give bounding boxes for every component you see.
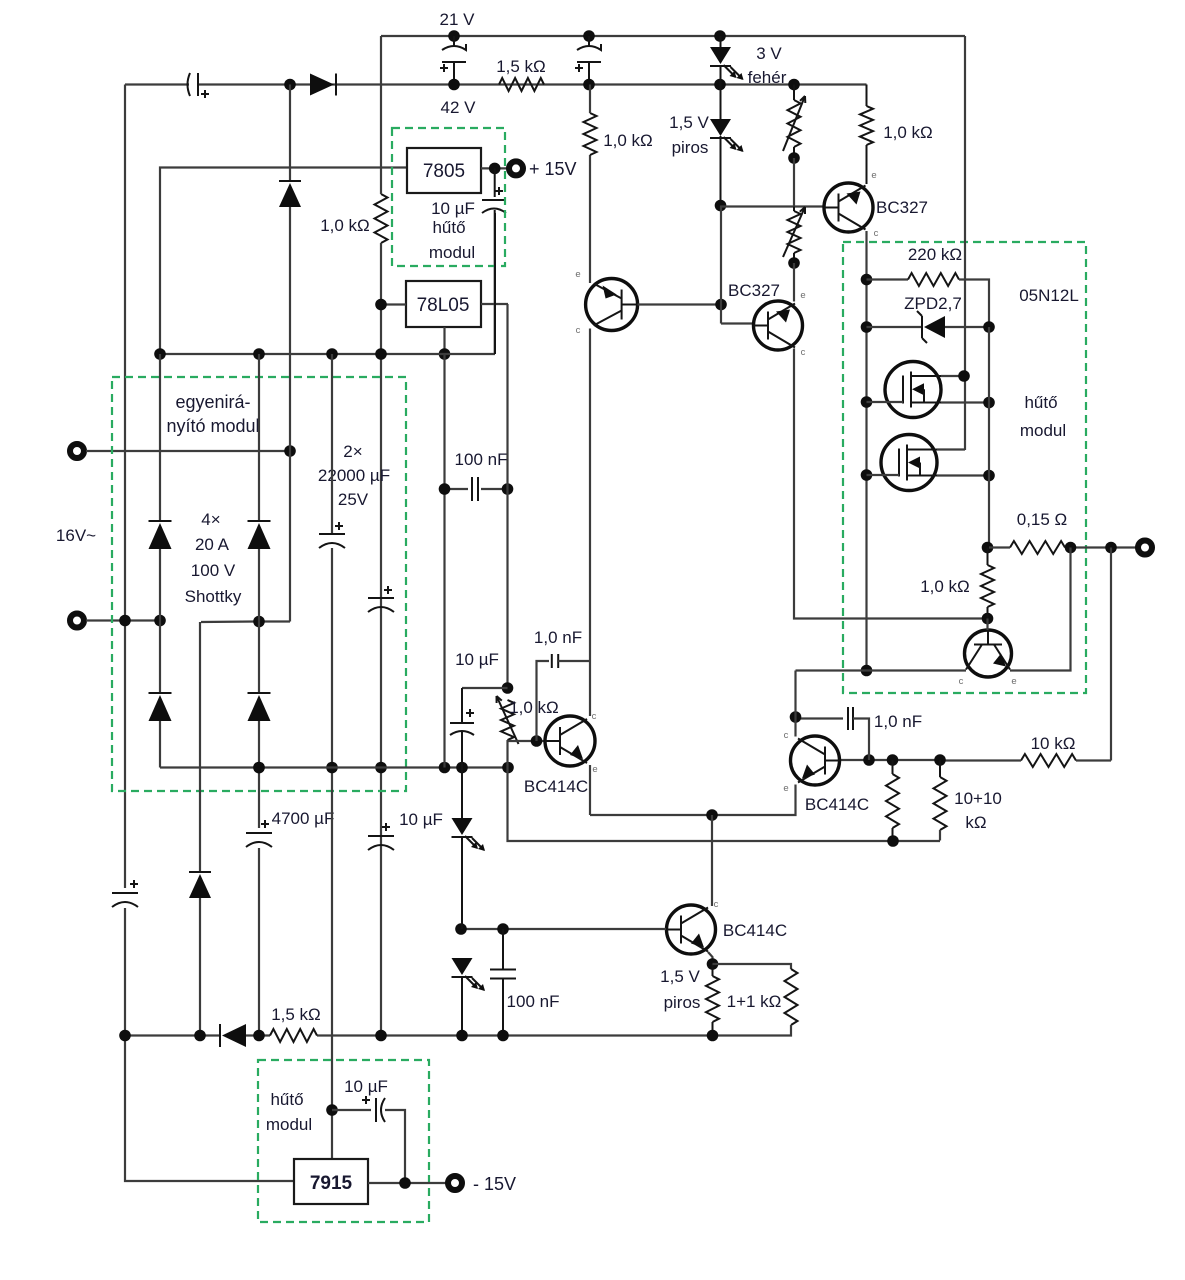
wire base rail BC327-1 <box>721 205 825 207</box>
node gnd rail a <box>439 348 451 360</box>
node Q2 base x722 <box>715 299 727 311</box>
node trimmer top <box>502 682 514 694</box>
svg-text:7805: 7805 <box>423 161 465 182</box>
wire top rail 21V net <box>381 35 965 37</box>
LED red x462 lower <box>452 958 473 975</box>
svg-text:10 µF: 10 µF <box>455 650 499 669</box>
wire Q6 collector up <box>711 815 713 906</box>
node 42V-b <box>583 30 595 42</box>
svg-text:piros: piros <box>664 993 701 1012</box>
transistor Q6 BC414C-3 <box>667 905 716 954</box>
diode D2 <box>248 520 271 522</box>
svg-text:e: e <box>592 764 597 775</box>
wire x200 bracket column <box>199 622 201 872</box>
svg-text:1,5 kΩ: 1,5 kΩ <box>271 1005 321 1024</box>
svg-text:20 A: 20 A <box>195 535 230 554</box>
capacitor 10uF (7915) <box>332 1109 371 1111</box>
node 100nF left <box>439 483 451 495</box>
node y354 x259 <box>253 348 265 360</box>
wire Q3 collector down <box>794 349 988 619</box>
svg-text:7915: 7915 <box>310 1173 353 1194</box>
wire 78L05 output <box>481 303 508 305</box>
wire Q4 collector <box>589 329 591 717</box>
node 100nF right <box>502 483 514 495</box>
wire Q5 collector <box>794 671 796 737</box>
diode D4 <box>248 692 271 694</box>
svg-text:78L05: 78L05 <box>417 295 470 316</box>
svg-text:BC414C: BC414C <box>524 777 588 796</box>
node output mid <box>1065 542 1077 554</box>
node output right <box>1105 542 1117 554</box>
node y1035 x503 <box>497 1030 509 1042</box>
node bracket x259 <box>253 616 265 628</box>
node y1035 x713 <box>707 1030 719 1042</box>
transistor Q3 BC327-2 <box>754 301 803 350</box>
wire Q7 base <box>986 619 988 631</box>
svg-text:4700 µF: 4700 µF <box>272 809 335 828</box>
node 1,0nF left <box>790 711 802 723</box>
wire Q7 collector to x866 <box>796 669 967 671</box>
resistor 1,0k (x866) <box>866 85 868 107</box>
wire bottom rail y1035 <box>125 1034 220 1036</box>
svg-text:c: c <box>592 711 597 722</box>
terminal -15V <box>448 1176 462 1190</box>
svg-text:modul: modul <box>266 1115 312 1134</box>
node base BC414C-1 <box>531 735 543 747</box>
svg-text:1,5 V: 1,5 V <box>669 113 709 132</box>
capacitor 10uF at 7805 <box>494 168 496 197</box>
node y1035 x462 <box>456 1030 468 1042</box>
node gate M2 <box>861 469 873 481</box>
wire gnd rail y354 <box>160 353 495 355</box>
node x381 rect bottom <box>375 762 387 774</box>
svg-text:ZPD2,7: ZPD2,7 <box>904 294 962 313</box>
svg-text:c: c <box>874 228 879 239</box>
node zener left <box>861 321 873 333</box>
wire AC lower bracket <box>201 620 290 623</box>
wire trimmer1 to base rail <box>793 158 795 207</box>
svg-text:e: e <box>1011 676 1016 687</box>
wire M1 drain <box>941 375 965 377</box>
svg-text:3 V: 3 V <box>756 44 782 63</box>
capacitor 10uF (x381 lower) <box>368 835 394 837</box>
terminal AC upper <box>70 444 84 458</box>
terminal AC lower <box>70 614 84 628</box>
node y1035 x125 <box>119 1030 131 1042</box>
diode D x290 <box>279 180 301 182</box>
wire x721 column <box>720 206 722 324</box>
node x259 rect bottom <box>253 762 265 774</box>
wire y768 nodes right <box>439 762 451 774</box>
transistor Q1 BC327-1 <box>824 183 873 232</box>
node AC lower x125 <box>119 615 131 627</box>
node y206 x720 <box>715 200 727 212</box>
node AC upper junction <box>284 445 296 457</box>
transistor Q5 BC414C-2 <box>791 736 840 785</box>
node y760 x940 <box>934 754 946 766</box>
wire base rail y760 <box>840 759 941 761</box>
wire AC upper <box>86 450 290 452</box>
svg-text:e: e <box>783 783 788 794</box>
resistor 1,5k bottom <box>270 1029 317 1042</box>
svg-text:hűtő: hűtő <box>270 1090 303 1109</box>
svg-text:egyenirá-: egyenirá- <box>175 392 250 412</box>
svg-text:modul: modul <box>1020 421 1066 440</box>
svg-text:e: e <box>575 269 580 280</box>
svg-text:1,5 V: 1,5 V <box>660 967 700 986</box>
node y767 x258 <box>253 762 265 774</box>
wire M2 source <box>937 474 989 476</box>
svg-text:1,0 kΩ: 1,0 kΩ <box>509 698 559 717</box>
svg-text:BC414C: BC414C <box>723 921 787 940</box>
svg-text:kΩ: kΩ <box>965 813 986 832</box>
svg-text:10 µF: 10 µF <box>344 1077 388 1096</box>
wire Q1 collector column x866 <box>865 231 867 671</box>
capacitor 100nF (x445-x507) <box>443 354 445 489</box>
resistor trimmer R5 (x794 upper) <box>788 100 801 147</box>
svg-text:1,0 kΩ: 1,0 kΩ <box>320 216 370 235</box>
svg-text:1,0 kΩ: 1,0 kΩ <box>603 131 653 150</box>
svg-text:c: c <box>714 899 719 910</box>
node y354 x160 <box>154 348 166 360</box>
capacitor 4,7u left column <box>112 892 138 894</box>
resistor 10k <box>1021 754 1076 767</box>
node y1035 x200 <box>194 1030 206 1042</box>
node y760 x892 <box>887 754 899 766</box>
wire Q2 emitter up <box>589 155 591 283</box>
node zener right <box>983 321 995 333</box>
node y1035 x381 <box>375 1030 387 1042</box>
svg-text:- 15V: - 15V <box>473 1174 516 1194</box>
capacitor 4700uF <box>246 832 272 834</box>
green dashed box 7805 module <box>392 128 505 266</box>
node 42V-a <box>448 30 460 42</box>
resistor trimmer R16 1,0k <box>501 700 514 740</box>
wire x332 to 7915 <box>331 768 333 1160</box>
node 78L05 in <box>375 299 387 311</box>
capacitor 1,0 nF (BC414C-1) <box>551 654 553 668</box>
wire M1 source <box>941 401 989 403</box>
diode D series (42V rail) <box>335 74 337 96</box>
wire Q2 base <box>638 303 722 305</box>
svg-text:hűtő: hűtő <box>1024 393 1057 412</box>
LED red x462 upper <box>461 768 463 819</box>
green dashed box rectifier module <box>112 377 406 791</box>
MOSFET M2 <box>881 435 937 491</box>
node y760 x869 <box>863 754 875 766</box>
diode D3 <box>149 692 172 694</box>
node rail-c2 <box>583 79 595 91</box>
green dashed box 7915 module <box>258 1060 429 1222</box>
capacitor 10uF mid <box>461 688 463 723</box>
capacitor 1,0 nF (Q5) <box>796 717 844 719</box>
svg-text:c: c <box>959 676 964 687</box>
transistor Q2 middle PNP <box>586 279 638 331</box>
wire Q5 emitter <box>590 785 796 816</box>
green dashed box 05N12L module <box>843 242 1086 693</box>
svg-text:1+1 kΩ: 1+1 kΩ <box>727 992 782 1011</box>
zener ZPD2,7 <box>867 326 923 328</box>
svg-text:1,0 nF: 1,0 nF <box>534 628 582 647</box>
transistor Q4 BC414C-1 <box>545 716 595 766</box>
svg-text:hűtő: hűtő <box>432 218 465 237</box>
svg-text:e: e <box>800 290 805 301</box>
svg-text:10 µF: 10 µF <box>399 810 443 829</box>
node gate M1 <box>861 396 873 408</box>
wire Q6 base rail <box>461 928 666 930</box>
wire left outer column <box>124 85 126 889</box>
resistor 1,0k (x987) <box>981 565 994 607</box>
node y841 x893 <box>887 835 899 847</box>
diode D1 <box>149 520 172 522</box>
node 7915 out <box>399 1177 411 1189</box>
wire feedback x1111 <box>1110 548 1112 761</box>
svg-text:c: c <box>576 325 581 336</box>
node x332 rect bottom <box>326 762 338 774</box>
svg-text:modul: modul <box>429 243 475 262</box>
node LED column top <box>714 30 726 42</box>
svg-text:1,0 kΩ: 1,0 kΩ <box>920 577 970 596</box>
node 220k left <box>861 274 873 286</box>
resistor 1,0 kOhm (x381) <box>375 194 388 243</box>
wire x259 column (diode leg 2) <box>258 354 260 521</box>
wire Q7 emitter loop <box>1010 548 1071 671</box>
node y815 x712 <box>706 809 718 821</box>
svg-text:10 kΩ: 10 kΩ <box>1031 734 1076 753</box>
svg-text:25V: 25V <box>338 490 369 509</box>
node y354 x332 <box>326 348 338 360</box>
wire y841 long <box>508 768 941 842</box>
node trimmer1 bottom <box>788 152 800 164</box>
wire M1 gate <box>867 401 904 403</box>
capacitor 21V (left) <box>453 36 455 46</box>
resistor 220k <box>867 278 909 280</box>
node M1 source <box>983 397 995 409</box>
MOSFET M1 <box>885 362 941 418</box>
wire trimmer to base <box>506 740 508 768</box>
svg-text:1,5 kΩ: 1,5 kΩ <box>496 57 546 76</box>
regulator U3 7915 box <box>294 1159 368 1204</box>
svg-text:220 kΩ: 220 kΩ <box>908 245 962 264</box>
wire top-right drop x965 <box>964 36 966 450</box>
node rail-d1 <box>284 79 296 91</box>
wire 7805 input <box>160 168 407 355</box>
node Q6 emitter <box>707 958 719 970</box>
wire 42V rail <box>125 83 189 85</box>
node base x503 <box>497 923 509 935</box>
svg-text:Shottky: Shottky <box>185 587 242 606</box>
node AC lower x160 <box>154 615 166 627</box>
svg-text:100 nF: 100 nF <box>455 450 508 469</box>
node output left <box>982 542 994 554</box>
node rail-led <box>714 79 726 91</box>
wire Q4 emitter <box>589 765 591 815</box>
node y1035 x259 <box>253 1030 265 1042</box>
node x866 bottom <box>861 665 873 677</box>
svg-text:100 nF: 100 nF <box>507 992 560 1011</box>
diode D5 <box>189 871 211 873</box>
svg-text:2×: 2× <box>343 442 362 461</box>
wire 1,0nF stub <box>537 661 550 741</box>
capacitor 42V (right) <box>588 36 590 46</box>
node 7805 out <box>489 163 501 175</box>
capacitor 22000uF b (x381) <box>368 597 394 599</box>
svg-text:21 V: 21 V <box>440 10 476 29</box>
node rail-c1 <box>448 79 460 91</box>
svg-text:0,15 Ω: 0,15 Ω <box>1017 510 1068 529</box>
resistor 1,0k (x590) <box>584 113 597 155</box>
svg-text:c: c <box>801 347 806 358</box>
svg-text:1,0 kΩ: 1,0 kΩ <box>883 123 933 142</box>
svg-text:BC327: BC327 <box>876 198 928 217</box>
wire Q6 emitter <box>708 952 713 964</box>
wire AC lower <box>86 619 160 621</box>
wire M2 drain <box>937 448 965 450</box>
resistor 0,15 Ohm <box>1010 541 1065 554</box>
terminal +15V <box>509 161 523 175</box>
resistor 1+1 a <box>706 976 719 1022</box>
wire M2 gate <box>867 474 900 476</box>
wire x381 column <box>380 36 382 194</box>
resistor trimmer R6 (x794 lower) <box>788 211 801 253</box>
wire x160 column (diode leg 1) <box>159 354 161 521</box>
wire 10uF stub <box>462 687 508 689</box>
resistor 1,5 kOhm (42V rail) <box>499 78 544 91</box>
wire x989 column <box>988 327 990 548</box>
node base x461 <box>455 923 467 935</box>
svg-text:22000 µF: 22000 µF <box>318 466 390 485</box>
wire 7915 output <box>368 1182 448 1184</box>
svg-text:BC327: BC327 <box>728 281 780 300</box>
svg-text:nyító modul: nyító modul <box>166 416 259 436</box>
LED red (upper) <box>720 85 722 120</box>
node M2 source <box>983 470 995 482</box>
wire x290 column <box>289 85 291 181</box>
wire trimmer2 to Q3 emitter <box>793 263 795 302</box>
svg-text:100 V: 100 V <box>191 561 236 580</box>
svg-text:42 V: 42 V <box>441 98 477 117</box>
svg-text:fehér: fehér <box>748 68 787 87</box>
svg-text:10+10: 10+10 <box>954 789 1002 808</box>
svg-text:+ 15V: + 15V <box>529 159 577 179</box>
resistor 10+10 a <box>886 774 899 828</box>
regulator U2 78L05 box <box>406 281 481 327</box>
terminal output <box>1138 541 1152 555</box>
svg-text:piros: piros <box>672 138 709 157</box>
node rail-trim <box>788 79 800 91</box>
svg-text:05N12L: 05N12L <box>1019 286 1079 305</box>
svg-text:4×: 4× <box>201 510 220 529</box>
node Q7 base <box>982 613 994 625</box>
svg-text:e: e <box>871 170 876 181</box>
wire 7805 output <box>481 167 509 169</box>
svg-text:16V~: 16V~ <box>56 526 96 545</box>
wire 78L05 gnd pin <box>443 327 445 354</box>
wire rectifier bottom rail y767.5 <box>160 766 508 768</box>
regulator U1 7805 box <box>407 148 481 193</box>
capacitor 22000uF a (x332) <box>331 354 333 534</box>
capacitor series input (top-left) <box>188 73 191 96</box>
node trimmer2 bottom <box>788 257 800 269</box>
wire 10k to node <box>1076 759 1111 761</box>
node M1 drain <box>958 370 970 382</box>
wire x508 column <box>506 304 508 489</box>
svg-text:c: c <box>784 730 789 741</box>
LED white (top) <box>720 36 722 47</box>
resistor 10+10 b <box>934 777 947 830</box>
svg-text:BC414C: BC414C <box>805 795 869 814</box>
node y354 x381 <box>375 348 387 360</box>
capacitor 100nF (x503) <box>502 929 504 970</box>
transistor Q7 output NPN <box>965 630 1012 677</box>
svg-text:10 µF: 10 µF <box>431 199 475 218</box>
wire output rail <box>989 546 1010 548</box>
resistor 1+1 b <box>713 964 792 969</box>
svg-text:1,0 nF: 1,0 nF <box>874 712 922 731</box>
diode D7 (bottom, left-pointing) <box>219 1024 221 1047</box>
node 10uF 7915 <box>326 1104 338 1116</box>
wire 78L05 input <box>381 303 406 305</box>
